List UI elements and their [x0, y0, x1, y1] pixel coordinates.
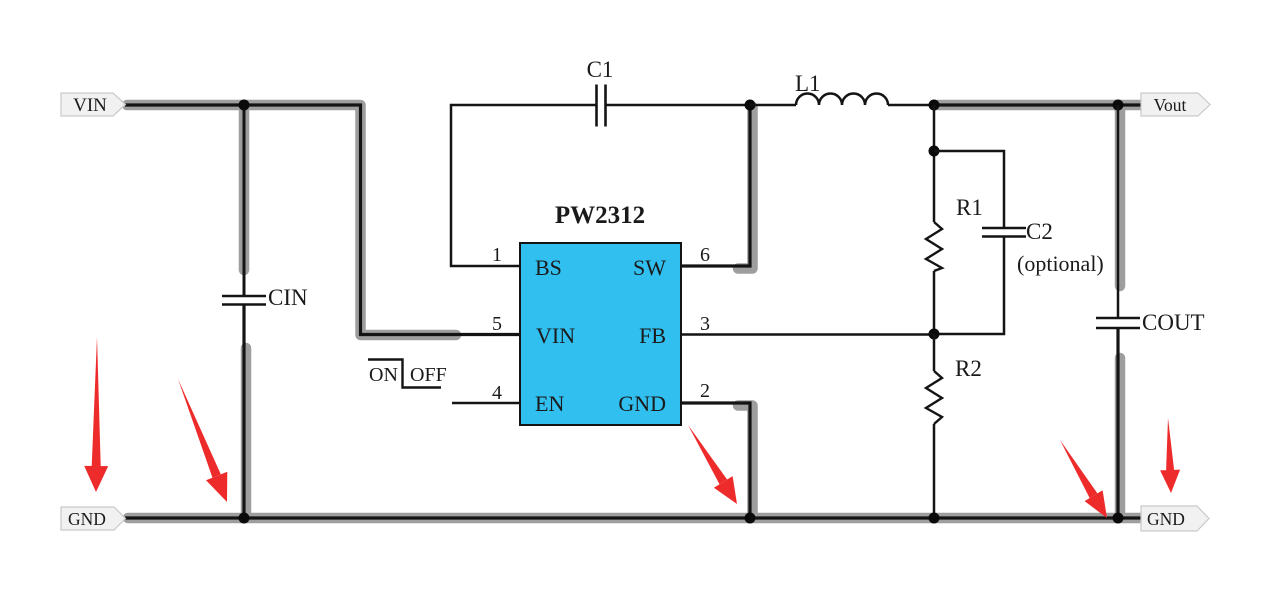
- svg-text:COUT: COUT: [1142, 310, 1205, 335]
- svg-text:R2: R2: [955, 356, 982, 381]
- svg-text:FB: FB: [639, 323, 666, 348]
- junction dot FB node: [929, 329, 940, 340]
- junction dot Vout/COUT: [1113, 100, 1124, 111]
- annotation red arrow 2: [178, 379, 227, 502]
- wire CIN lower lead: [242, 305, 245, 518]
- capacitor CIN plates: [222, 296, 266, 305]
- net flag VIN: [61, 93, 126, 116]
- svg-text:GND: GND: [68, 509, 106, 529]
- junction dot R1/C2 branch: [929, 146, 940, 157]
- resistor R1: [926, 222, 942, 271]
- junction dot CIN/GND: [239, 513, 250, 524]
- wire GND pin to rail: [681, 403, 750, 518]
- wire BS pin to C1 left: [451, 105, 596, 266]
- svg-text:5: 5: [492, 313, 502, 335]
- svg-text:1: 1: [492, 244, 502, 266]
- svg-text:(optional): (optional): [1017, 251, 1104, 276]
- svg-text:4: 4: [492, 382, 502, 404]
- annotation red arrow 1: [84, 337, 108, 492]
- net flag Vout: [1141, 93, 1210, 116]
- svg-text:EN: EN: [535, 391, 564, 416]
- svg-text:C1: C1: [587, 57, 614, 82]
- svg-text:2: 2: [700, 380, 710, 402]
- net highlight VIN trace: [127, 105, 456, 335]
- net flag GND right: [1141, 506, 1209, 531]
- switch ON/OFF symbol: [368, 360, 441, 388]
- wire C1 right to SW junction: [606, 104, 750, 107]
- svg-text:Vout: Vout: [1154, 95, 1187, 115]
- svg-text:BS: BS: [535, 255, 562, 280]
- svg-text:L1: L1: [795, 71, 821, 96]
- svg-text:6: 6: [700, 244, 710, 266]
- net highlight SW trace: [738, 107, 753, 269]
- svg-text:C2: C2: [1026, 219, 1053, 244]
- svg-text:OFF: OFF: [410, 364, 447, 386]
- junction dot L1/R1: [929, 100, 940, 111]
- svg-text:ON: ON: [369, 364, 398, 386]
- annotation red arrow 3: [688, 425, 737, 504]
- wire COUT lower lead: [1116, 329, 1119, 518]
- svg-text:CIN: CIN: [268, 285, 308, 310]
- wire CIN upper lead: [243, 105, 246, 295]
- annotation red arrow 5: [1160, 418, 1180, 493]
- capacitor C2 plates: [982, 228, 1026, 237]
- wire SW pin to junction: [681, 105, 750, 266]
- wire R1 lower lead: [933, 271, 936, 334]
- wire GND bottom rail: [125, 516, 1141, 519]
- capacitor C1 plates: [597, 85, 606, 127]
- svg-text:GND: GND: [618, 391, 666, 416]
- IC U1 PW2312 body: [520, 243, 681, 425]
- junction dot SW/L1: [745, 100, 756, 111]
- svg-text:GND: GND: [1147, 509, 1185, 529]
- wire EN pin stub: [452, 402, 520, 405]
- wire COUT upper lead: [1117, 105, 1120, 317]
- wire R2 upper lead: [933, 334, 936, 371]
- svg-text:3: 3: [700, 313, 710, 335]
- svg-text:SW: SW: [633, 255, 666, 280]
- svg-text:PW2312: PW2312: [555, 202, 645, 229]
- junction dot R2/GND: [929, 513, 940, 524]
- wire L1 to Vout junction: [888, 104, 934, 107]
- capacitor COUT plates: [1096, 318, 1140, 328]
- net flag GND left: [61, 507, 126, 530]
- junction dot COUT/GND: [1113, 513, 1124, 524]
- wire C2 bottom branch: [934, 237, 1004, 334]
- svg-text:R1: R1: [956, 195, 983, 220]
- wire FB pin to divider: [681, 333, 934, 336]
- svg-text:VIN: VIN: [73, 95, 107, 116]
- net highlight Vout trace: [938, 105, 1142, 286]
- junction dot VIN/CIN: [239, 100, 250, 111]
- svg-text:VIN: VIN: [536, 323, 575, 348]
- junction dot IC GND: [745, 513, 756, 524]
- wire junction to L1: [750, 104, 796, 107]
- annotation red arrow 4: [1060, 440, 1107, 518]
- net highlight GND rail trace: [128, 348, 1144, 518]
- inductor L1: [796, 94, 888, 106]
- resistor R2: [926, 371, 942, 424]
- wire Vout net rail: [934, 103, 1141, 106]
- wire C2 top branch: [934, 151, 1004, 227]
- wire R1 upper lead: [933, 105, 936, 222]
- wire R2 lower lead: [933, 424, 936, 518]
- wire VIN net: flag to corner to pin5: [125, 105, 520, 335]
